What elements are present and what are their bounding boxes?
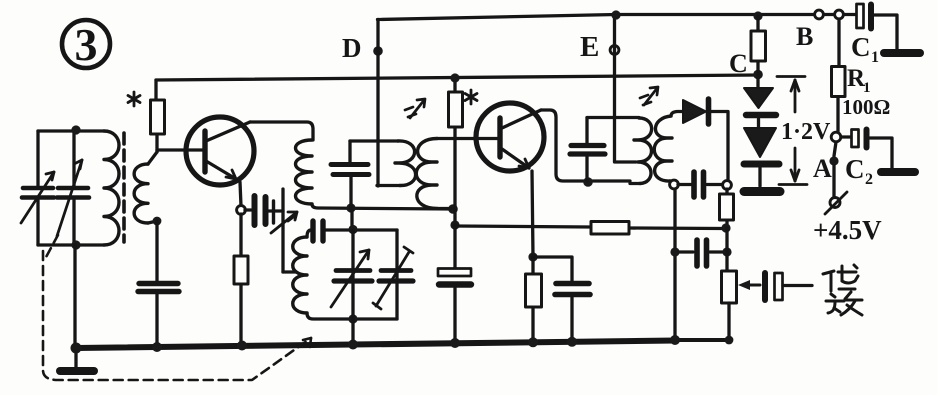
capacitor output coupling (765, 273, 812, 300)
node E (580, 31, 619, 63)
variable capacitor VC3 (osc main) (331, 230, 372, 319)
wire to volume pot (725, 228, 728, 271)
svg-text:C: C (851, 32, 871, 62)
capacitor osc feedback trimmer (245, 189, 297, 272)
asterisk mark (128, 92, 140, 106)
label low-frequency amp (kanji tei) (823, 265, 858, 291)
diode stabiliser D2 (744, 128, 780, 192)
junction bias top (450, 73, 459, 82)
svg-text:2: 2 (865, 171, 873, 188)
bus junctions (71, 335, 734, 354)
wire AGC line (455, 226, 722, 229)
resistor detector load (720, 189, 734, 228)
wire secondary bottom (148, 221, 157, 223)
wire antenna tank to ground (73, 245, 76, 348)
label low-frequency amp (kanji hou) (826, 292, 862, 315)
resistor R* (Q2 bias) (449, 78, 463, 225)
coil T2 primary (395, 141, 416, 186)
wire osc to ground (351, 319, 354, 345)
tuning arrow T3 (640, 87, 658, 105)
wire D branch (376, 20, 379, 187)
capacitor T3 tank (570, 118, 605, 181)
wire T3 top rail (587, 116, 639, 119)
wire T3 secondary top (671, 112, 683, 117)
svg-text:3: 3 (75, 19, 98, 70)
capacitor detector bypass 2 (679, 240, 723, 266)
transistor Q2 (476, 103, 544, 171)
junction antenna top (71, 125, 80, 134)
resistor AGC 1M (591, 222, 629, 235)
svg-text:B: B (796, 22, 813, 51)
junction osc top (348, 225, 357, 234)
svg-text:1: 1 (863, 80, 871, 96)
diode stabiliser D1 (744, 74, 776, 128)
diode detector (683, 99, 728, 181)
junction osc bottom (348, 314, 357, 323)
node R1/C2 (open) (831, 132, 841, 142)
wire T2 top rail (350, 139, 398, 142)
coil T1 primary (Q1 collector load) (296, 140, 313, 204)
asterisk mark 2 (465, 90, 477, 104)
junction antenna bottom (71, 240, 80, 249)
junction tank rail right (448, 204, 458, 214)
ferrite core (dashed) (122, 133, 126, 242)
node B terminals (796, 10, 843, 51)
junction detector return (670, 247, 679, 256)
node Q1 emitter (open) (237, 206, 246, 215)
resistor Q2 emitter (526, 257, 542, 342)
capacitor C2 (841, 130, 915, 189)
junction volume top (722, 247, 731, 256)
wire T3 primary bottom (630, 182, 640, 185)
junction top rail at E (611, 10, 620, 19)
variable capacitor VC2 (antenna gang) (57, 131, 89, 245)
svg-text:100Ω: 100Ω (842, 95, 890, 119)
resistor R* (Q1 bias) (151, 80, 165, 152)
coil T3 primary (634, 118, 652, 184)
junction collector tank (583, 177, 593, 187)
capacitor T2 tank (331, 141, 369, 208)
wire tank bottom rail (312, 204, 453, 209)
wire osc right side (395, 230, 398, 319)
tuning arrow T2 (405, 99, 425, 118)
coil T2 secondary (416, 139, 437, 209)
junction secondary bottom (153, 217, 162, 226)
wire second supply rail (156, 75, 758, 80)
svg-text:1·2V: 1·2V (781, 119, 831, 145)
junction top rail at stabiliser (753, 11, 762, 20)
node C (729, 49, 763, 79)
resistor Q1 emitter (234, 214, 248, 346)
switch to battery (825, 166, 847, 214)
capacitor AGC bypass (electrolytic) (438, 225, 471, 343)
svg-text:1: 1 (871, 49, 879, 66)
dimension arrow 1.2V (777, 77, 807, 185)
wire Q1 collector (250, 122, 313, 140)
wire Q2 emitter (532, 171, 533, 256)
svg-text:E: E (580, 31, 599, 63)
svg-text:C: C (845, 154, 865, 184)
ground bus (76, 341, 676, 349)
capacitor osc series (307, 221, 397, 241)
junction AGC node (450, 220, 459, 229)
coil T3 secondary (654, 116, 672, 181)
capacitor Q1 emitter bypass (electrolytic) (138, 221, 179, 347)
capacitor C1 (851, 4, 920, 66)
wire Q1 emitter (240, 182, 241, 206)
node D (342, 33, 383, 63)
resistor R1 100ohm (832, 19, 891, 132)
ground symbol (74, 348, 77, 367)
wire T3 secondary bottom (670, 181, 674, 185)
wire T2 secondary top to Q2 base (437, 137, 498, 140)
gang link arrowhead (303, 338, 311, 347)
junction AGC takeoff (721, 223, 730, 232)
wire T2 secondary bottom (437, 207, 451, 210)
antenna coil primary L1 (104, 131, 119, 245)
junction tank rail left (346, 203, 355, 212)
svg-text:C: C (729, 49, 748, 78)
wire Q2 collector (541, 110, 630, 181)
variable capacitor VC1 (antenna gang) (21, 131, 54, 245)
variable capacitor VC4 (osc trimmer) (373, 247, 413, 309)
transistor Q1 (157, 117, 254, 185)
antenna coil secondary L2 (134, 164, 148, 223)
node detector output (open) (723, 181, 732, 190)
svg-text:A: A (813, 154, 832, 183)
wiper arrow (744, 284, 760, 287)
node T3 secondary bottom (open) (670, 180, 679, 189)
wire antenna tank bottom rail (38, 243, 104, 246)
svg-text:+4.5V: +4.5V (813, 215, 882, 245)
wire detector return (673, 189, 676, 340)
resistor stabiliser feed (751, 16, 766, 74)
wire rail to osc tank (350, 208, 353, 230)
figure number 3 (circled) (62, 19, 110, 70)
potentiometer volume (722, 271, 737, 340)
wire osc bottom rail (307, 313, 397, 319)
wire E branch (615, 15, 637, 162)
node A (813, 142, 839, 183)
wire top supply rail (378, 15, 856, 20)
wire secondary top to base node (148, 152, 157, 164)
oscillator coil L3 (293, 237, 307, 313)
capacitor Q2 emitter bypass (533, 257, 590, 342)
dashed gang link (43, 235, 311, 380)
svg-text:D: D (342, 33, 362, 63)
junction Q2 emitter (528, 252, 537, 261)
wire antenna tank top rail (38, 129, 104, 132)
capacitor detector bypass 1 (678, 172, 722, 197)
wire T2 primary bottom to D (377, 184, 400, 187)
